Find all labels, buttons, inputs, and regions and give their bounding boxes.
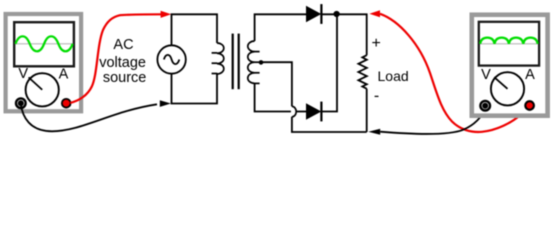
svg-text:A: A [525,67,535,83]
svg-text:V: V [481,67,491,83]
svg-text:A: A [59,67,69,83]
svg-text:voltage: voltage [99,55,146,71]
svg-text:V: V [18,66,28,82]
svg-text:source: source [103,70,147,86]
svg-text:AC: AC [113,37,133,53]
svg-text:+: + [372,35,381,52]
svg-text:Load: Load [378,68,409,84]
svg-text:-: - [374,88,379,105]
